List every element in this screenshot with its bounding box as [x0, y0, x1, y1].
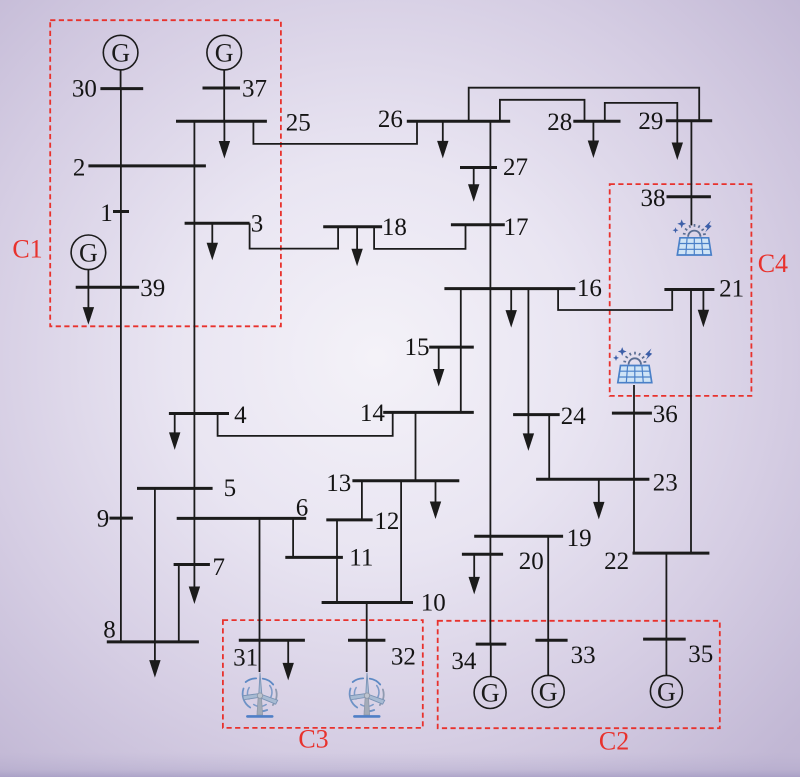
bus 35 bar [643, 638, 686, 641]
svg-text:23: 23 [653, 470, 678, 497]
generator G at bus 39 [71, 235, 106, 270]
bus 5 bar [137, 487, 213, 490]
load arrow bus 15 [433, 347, 444, 386]
wire 26 to 29 outer [469, 88, 700, 122]
wire G37 to bus 37 [223, 69, 225, 88]
svg-text:12: 12 [374, 508, 399, 535]
bus 24 bar [513, 413, 560, 416]
bus 3 bar [185, 222, 250, 225]
bus 30 bar [100, 87, 143, 90]
bus 20 bar [462, 553, 503, 556]
zone C2 dashed box [438, 621, 720, 728]
bus 27 bar [460, 166, 497, 169]
svg-text:3: 3 [251, 211, 264, 238]
wire 28 to 29 [605, 103, 678, 121]
svg-text:20: 20 [519, 548, 544, 575]
svg-text:21: 21 [719, 276, 744, 303]
svg-text:G: G [481, 679, 500, 708]
svg-text:39: 39 [140, 275, 165, 302]
svg-text:17: 17 [504, 214, 529, 241]
generator G at bus 35 [650, 675, 682, 707]
bus 7 bar [174, 563, 210, 566]
wire 21 to 22 [690, 290, 692, 554]
bus 28 bar [573, 120, 620, 123]
bus 1 tick [113, 210, 129, 213]
bus 23 bar [536, 478, 649, 481]
load arrow bus 7 [189, 565, 200, 605]
svg-text:36: 36 [653, 401, 678, 428]
svg-text:35: 35 [688, 641, 713, 668]
svg-text:15: 15 [405, 334, 430, 361]
load arrow bus 4 [169, 414, 180, 450]
wire 22 to 35 [665, 553, 667, 639]
bus 9 tick [110, 517, 133, 520]
svg-text:14: 14 [360, 400, 386, 427]
zone C4 dashed box [610, 184, 752, 396]
svg-text:C4: C4 [758, 249, 788, 278]
wire 10 to 32 to turbine [366, 603, 368, 673]
svg-text:2: 2 [73, 154, 86, 181]
load arrow bus 23 [593, 479, 604, 519]
wire chain 25-2-3-4-5-6-7 [193, 121, 195, 564]
bus 18 bar [323, 225, 382, 228]
bus 19 bar [474, 535, 563, 538]
svg-text:G: G [539, 677, 558, 706]
svg-text:5: 5 [224, 475, 237, 502]
wire 34 to G [490, 644, 492, 676]
svg-text:9: 9 [97, 506, 110, 533]
bus 36 bar [612, 412, 652, 415]
solar plant icon at bus 36 [613, 347, 652, 383]
wire 16 to 24 [527, 289, 529, 415]
svg-text:6: 6 [296, 494, 309, 521]
wire 18 to 17 [374, 225, 465, 249]
load arrow bus 24 [523, 415, 534, 451]
wire 3 to 18 [250, 223, 339, 248]
bus 12 bar [326, 518, 372, 521]
bus 34 bar [476, 643, 507, 646]
solar plant icon at bus 38 [673, 219, 712, 255]
bus 13 bar [352, 479, 459, 482]
bus 16 bar [444, 287, 575, 290]
generator G at bus 37 [207, 35, 242, 70]
svg-text:37: 37 [242, 76, 267, 103]
wire 29 to 38 to solar [690, 121, 692, 226]
load arrow bus 13 [430, 481, 441, 519]
svg-text:22: 22 [604, 548, 629, 575]
bus 22 bar [633, 552, 710, 555]
wire 37 to 25 [223, 88, 225, 121]
bus 21 bar [664, 288, 714, 291]
wire 13 to 12 [361, 481, 363, 520]
wire solar2 to 36-23-22 [633, 385, 635, 553]
load arrow bus 26 [437, 121, 448, 158]
bus 4 bar [169, 412, 229, 415]
bus 10 bar [322, 601, 413, 604]
load arrow bus 3 [207, 223, 218, 260]
wire 5 to 8 and load [154, 488, 156, 642]
bus 14 bar [383, 411, 474, 414]
wire 6 to 31 to turbine [259, 518, 261, 672]
wire 7 to 8 [178, 565, 180, 642]
bus 8 bar [107, 640, 199, 643]
svg-text:25: 25 [286, 110, 311, 137]
wire G39 to bus 39 [87, 269, 89, 287]
svg-text:38: 38 [641, 185, 666, 212]
generator G at bus 33 [532, 675, 564, 707]
wire G30 to bus 30 [120, 69, 122, 88]
svg-text:30: 30 [72, 75, 97, 102]
svg-text:16: 16 [577, 275, 602, 302]
svg-text:32: 32 [391, 644, 416, 671]
svg-text:8: 8 [103, 617, 116, 644]
bus 29 bar [666, 119, 712, 122]
svg-text:G: G [111, 39, 130, 68]
svg-text:27: 27 [503, 154, 528, 181]
bus 33 bar [535, 639, 567, 642]
bus 31 bar [239, 639, 305, 642]
svg-text:24: 24 [561, 403, 587, 430]
wire 25 to 26 [253, 121, 417, 144]
svg-text:33: 33 [571, 642, 596, 669]
wire 35 to G [665, 639, 667, 675]
load arrow bus 39 [83, 287, 94, 324]
svg-text:C3: C3 [298, 724, 328, 753]
bus 11 bar [285, 556, 343, 559]
svg-text:19: 19 [567, 525, 592, 552]
load arrow bus 31 [283, 640, 294, 680]
bus 25 bar [176, 120, 267, 123]
svg-text:1: 1 [100, 200, 113, 227]
svg-text:31: 31 [233, 644, 258, 671]
bus 38 bar [667, 195, 711, 198]
bus 15 bar [429, 346, 474, 349]
load arrow bus 27 [468, 168, 479, 202]
wire 33 to G [547, 640, 549, 675]
wind turbine at bus 32 [350, 673, 385, 717]
svg-text:26: 26 [378, 106, 403, 133]
bus 2 bar [88, 164, 205, 167]
wire 13 to 10 [400, 481, 402, 603]
load arrow bus 21 [698, 290, 709, 328]
svg-text:28: 28 [547, 109, 572, 136]
load arrow bus 18 [351, 227, 362, 266]
svg-text:G: G [657, 677, 676, 706]
wire 6 to 11 [292, 518, 294, 557]
wire 19 to 33 [547, 536, 549, 640]
generator G at bus 34 [474, 677, 506, 709]
bus 39 bar [76, 286, 139, 289]
svg-text:34: 34 [451, 648, 477, 675]
zone C3 dashed box [223, 620, 423, 728]
bus 6 bar [177, 517, 307, 520]
load arrow bus 16 [506, 289, 517, 328]
wire chain 30-2-1-39-9-8 [120, 89, 122, 642]
svg-text:7: 7 [213, 554, 226, 581]
svg-text:G: G [215, 39, 234, 68]
svg-text:11: 11 [349, 545, 373, 572]
zone C1 dashed box [50, 20, 281, 326]
wind turbine at bus 31 [243, 673, 278, 717]
load arrow bus 29 [672, 121, 683, 160]
svg-text:4: 4 [234, 402, 247, 429]
wire 26 to 28 inner [500, 100, 585, 121]
load arrow bus 20 [469, 554, 480, 594]
generator G at bus 30 [103, 35, 138, 70]
wire 16-15-14 [460, 289, 462, 413]
wire 16 to 21 [558, 289, 672, 310]
svg-text:18: 18 [382, 214, 407, 241]
bus 37 bar [203, 87, 241, 90]
wire 24 to 23 [548, 415, 550, 480]
svg-text:C2: C2 [599, 726, 629, 755]
svg-text:13: 13 [326, 470, 351, 497]
load arrow bus 8 [149, 642, 160, 678]
wire chain 26-27-17-16-19-20-34 [489, 121, 491, 644]
bus 32 bar [348, 639, 385, 642]
svg-text:G: G [79, 238, 98, 267]
bus 26 bar [407, 120, 510, 123]
svg-text:C1: C1 [12, 234, 42, 263]
wire 12-11-10 [336, 520, 338, 603]
load arrow bus 28 [588, 121, 599, 158]
wire 4 to 14 [218, 412, 393, 436]
svg-text:29: 29 [638, 108, 663, 135]
wire 14 to 13 [415, 412, 417, 480]
load arrow bus 25 [219, 121, 230, 158]
bus 17 bar [451, 223, 505, 226]
svg-text:10: 10 [421, 589, 446, 616]
